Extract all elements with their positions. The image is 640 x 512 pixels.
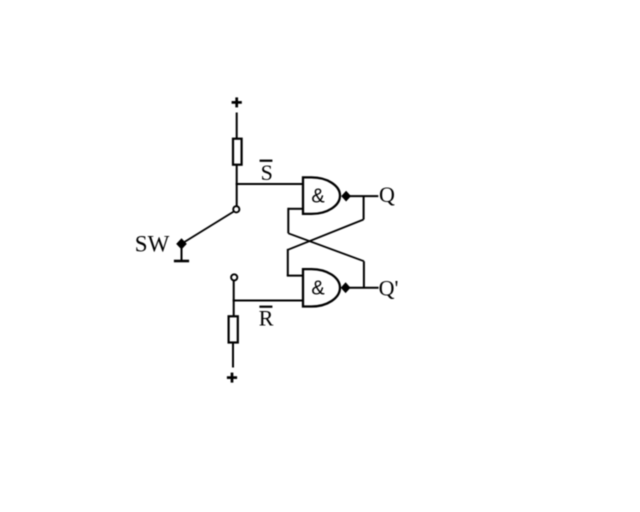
- power + (bottom supply): [227, 373, 237, 383]
- wire from R contact down to lower resistor: [233, 281, 235, 317]
- resistor (bottom pull-up): [229, 316, 238, 342]
- wire cross diagonal from Q' junction to gate1 lower input: [288, 233, 364, 261]
- wire from top + down to resistor: [236, 113, 238, 140]
- wire stub into gate2 upper input: [287, 275, 304, 277]
- svg-text:&: &: [311, 186, 325, 208]
- wire stub from gate1 lower input: [288, 208, 304, 210]
- label R-bar overbar: [259, 306, 272, 308]
- svg-text:Q: Q: [379, 182, 395, 207]
- label S-bar overbar: [260, 160, 273, 162]
- switch contact circle (R side): [231, 274, 237, 280]
- switch pole stem: [181, 248, 183, 261]
- wire vertical down to gate2 upper stub: [287, 249, 289, 276]
- svg-text:S: S: [261, 160, 273, 185]
- wire node R-bar horizontal to gate 2 input: [233, 300, 304, 302]
- switch pole T-bar: [174, 260, 189, 263]
- switch contact circle (S side): [233, 206, 239, 212]
- wire vertical down to gate2 output junction: [363, 261, 365, 288]
- NAND gate 2 body: [303, 269, 340, 306]
- svg-text:R: R: [259, 306, 274, 331]
- wire gate2 output to Q': [350, 287, 379, 289]
- wire vertical down from gate1 lower stub: [287, 208, 289, 234]
- wire from resistor down to switch contact: [236, 165, 238, 206]
- svg-text:&: &: [311, 278, 325, 300]
- wire gate1 output to Q: [350, 195, 378, 197]
- NAND gate 2 output inversion diamond: [341, 282, 351, 293]
- wire node S-bar horizontal to gate 1 input: [236, 183, 304, 185]
- wire cross diagonal from Q junction to gate2 upper input: [288, 220, 364, 250]
- NAND gate 1 body: [303, 177, 340, 214]
- resistor (top pull-up): [233, 139, 242, 165]
- wire from bottom resistor down to +: [232, 343, 234, 368]
- switch lever: [182, 212, 234, 244]
- power + (top supply): [232, 97, 242, 107]
- svg-text:Q': Q': [379, 275, 399, 300]
- NAND gate 1 output inversion diamond: [341, 191, 351, 202]
- wire gate1 output junction down: [363, 196, 365, 219]
- svg-text:SW: SW: [135, 232, 170, 257]
- switch pole diamond SW: [176, 238, 187, 249]
